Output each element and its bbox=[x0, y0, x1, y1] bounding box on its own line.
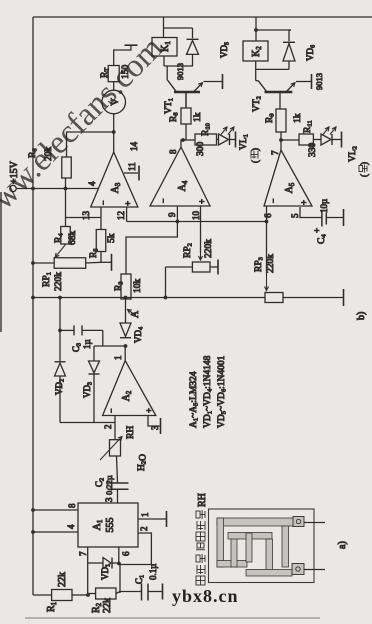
led VL2 bbox=[313, 139, 321, 141]
svg-text:300: 300 bbox=[196, 142, 206, 157]
ground VL1 bbox=[235, 132, 237, 148]
wire VT2 emitter to ground bbox=[296, 81, 311, 83]
wire K1 connections bbox=[163, 56, 165, 66]
wire R9 to VT2 base bbox=[279, 92, 281, 109]
svg-text:RH: RH bbox=[197, 493, 208, 507]
node bus pin9 bbox=[176, 220, 180, 224]
svg-text:5k: 5k bbox=[107, 233, 117, 243]
svg-text:6: 6 bbox=[121, 551, 131, 556]
svg-text:13: 13 bbox=[81, 211, 91, 221]
resistor R5 bbox=[96, 230, 106, 252]
sensor label bbox=[196, 576, 205, 585]
wire RP1 to ground node bbox=[86, 261, 101, 264]
potentiometer RP3 bbox=[265, 293, 283, 303]
svg-text:10: 10 bbox=[191, 211, 201, 221]
wire +15V feed to A3 pin4 bbox=[33, 188, 98, 190]
wire R5 to pin13 line, stub to A3 bbox=[100, 218, 102, 230]
wire 555 pin3 to C2 bbox=[117, 489, 119, 503]
wire pin2 stub bbox=[114, 416, 116, 423]
ground branch bottom bbox=[343, 289, 345, 306]
wire 555 pin8 to rail bbox=[33, 509, 78, 511]
svg-text:−: − bbox=[159, 198, 168, 203]
wire collector node column bbox=[164, 65, 193, 67]
wire 555 pin6 line bbox=[118, 547, 120, 564]
wire A4 output node bbox=[181, 140, 186, 147]
diode VD2 on feedback row bbox=[59, 376, 61, 423]
wire 555 pin2 route bbox=[119, 533, 151, 565]
ground R7 bbox=[125, 44, 138, 46]
svg-text:6: 6 bbox=[263, 213, 273, 218]
svg-text:10µ: 10µ bbox=[319, 199, 329, 213]
humidity sensor RH drawing bbox=[209, 509, 315, 583]
potentiometer RP2 bbox=[192, 262, 210, 272]
ground VT1 emitter bbox=[222, 74, 224, 89]
svg-text:10k: 10k bbox=[133, 279, 143, 294]
svg-text:(: ( bbox=[250, 160, 260, 163]
capacitor C3 bbox=[60, 329, 74, 331]
svg-text:22k: 22k bbox=[57, 572, 68, 587]
wire R2 to C1 bbox=[116, 592, 120, 594]
wire pin13 vertical bbox=[66, 217, 102, 219]
wire A5 pin5 to C4 bbox=[300, 207, 322, 218]
svg-text:330: 330 bbox=[308, 143, 318, 158]
svg-text:0.22µ: 0.22µ bbox=[104, 475, 114, 495]
svg-text:68k: 68k bbox=[68, 231, 78, 246]
svg-text:+: + bbox=[299, 200, 309, 205]
svg-text:7: 7 bbox=[270, 150, 280, 155]
wire A2 output to junction bbox=[124, 346, 126, 361]
ground C1 bbox=[162, 584, 164, 600]
wire A2 pin2 node line bbox=[60, 422, 115, 424]
wire 555 pin7 line bbox=[87, 547, 89, 595]
scan artifact bottom streak bbox=[25, 617, 320, 619]
wire VD6 anode link bbox=[256, 68, 289, 70]
svg-text:12: 12 bbox=[116, 211, 126, 220]
svg-text:RH: RH bbox=[126, 426, 136, 439]
wire input bus vertical bbox=[127, 221, 267, 223]
capacitor C2 bbox=[108, 488, 129, 490]
svg-text:−: − bbox=[107, 408, 116, 413]
resistor RH humidity sensor bbox=[110, 440, 121, 456]
svg-text:7: 7 bbox=[78, 551, 88, 556]
sensor terminal pads bbox=[293, 517, 304, 527]
node A2 output junction bbox=[124, 344, 128, 348]
svg-text:220k: 220k bbox=[266, 254, 276, 273]
led VL1 bbox=[217, 139, 219, 141]
op-amp A2 bbox=[103, 361, 156, 416]
svg-text:1µ: 1µ bbox=[82, 339, 92, 349]
wire R8 to VT1 base bbox=[185, 92, 187, 108]
scan artifact left edge bbox=[0, 192, 2, 332]
wire R7 to ground bbox=[114, 46, 131, 66]
wire A3 pin11 to ground bbox=[124, 172, 138, 174]
wire 555 pin1 to ground bbox=[138, 518, 167, 520]
wire VT2 collector bbox=[256, 80, 259, 82]
resistor R4 bbox=[61, 227, 71, 245]
wire VT1 collector bbox=[166, 79, 169, 81]
resistor R7 150 bbox=[108, 66, 119, 82]
capacitor C4 bbox=[321, 211, 323, 227]
svg-text:220k: 220k bbox=[204, 239, 214, 258]
svg-text:5: 5 bbox=[290, 213, 300, 218]
diode VD6 bbox=[283, 44, 295, 62]
svg-text:9: 9 bbox=[167, 212, 177, 217]
wire VT1 emitter to ground bbox=[204, 81, 223, 83]
svg-text:2: 2 bbox=[139, 527, 149, 532]
node VD1-pin6-pin2 bbox=[117, 562, 121, 566]
svg-text:9013: 9013 bbox=[314, 73, 324, 90]
svg-text:+: + bbox=[312, 228, 322, 233]
ground VT2 emitter bbox=[311, 74, 313, 89]
wire VD3 column bbox=[94, 345, 126, 347]
ground A2 pin3 bbox=[160, 418, 162, 434]
svg-text:14: 14 bbox=[129, 142, 139, 152]
diode VD1 bbox=[88, 562, 103, 564]
wire R1 to junction bbox=[72, 594, 88, 596]
svg-text:11: 11 bbox=[127, 162, 137, 171]
wire to R9 bbox=[280, 132, 282, 140]
svg-text:+: + bbox=[197, 199, 207, 204]
resistor R2 bbox=[88, 593, 96, 595]
svg-text:+: + bbox=[144, 408, 154, 413]
svg-text:4: 4 bbox=[66, 524, 76, 529]
node R1-R2-pin7 bbox=[86, 593, 90, 597]
ground 555 pin1 bbox=[166, 511, 168, 527]
svg-text:0.1µ: 0.1µ bbox=[148, 564, 158, 580]
wire RH to A2 pin2 node bbox=[114, 423, 116, 440]
wire R3 to bus detour bbox=[126, 222, 177, 275]
resistor R3 bbox=[121, 274, 131, 299]
wire A5 output node bbox=[280, 140, 282, 150]
wire A3 pin12 stub bbox=[126, 207, 128, 222]
diode VD5 bbox=[192, 54, 194, 66]
svg-text:8: 8 bbox=[67, 503, 77, 508]
svg-text:1: 1 bbox=[140, 513, 150, 518]
svg-text:ybx8.cn: ybx8.cn bbox=[172, 586, 239, 606]
wire A3 output bbox=[113, 114, 115, 152]
svg-text:a): a) bbox=[337, 541, 348, 549]
resistor R8 bbox=[181, 108, 191, 124]
node rail-terminal junction bbox=[31, 187, 35, 191]
wire +15V branch vertical bbox=[33, 297, 265, 299]
wire R4 R6 line bbox=[65, 178, 67, 227]
wire R5 left to ground bbox=[100, 252, 102, 263]
op-amp A4 bbox=[150, 147, 210, 206]
relay K1 bbox=[152, 38, 177, 57]
diode VD3 bbox=[89, 361, 100, 373]
wire right-edge supply line bbox=[33, 16, 372, 18]
wire rail left end into R1 bbox=[33, 594, 52, 596]
ground R5/RP1 bbox=[111, 254, 113, 271]
svg-text:1: 1 bbox=[113, 356, 123, 361]
svg-text:A: A bbox=[130, 310, 141, 318]
resistor R9 bbox=[276, 109, 286, 132]
op-amp A3 bbox=[91, 152, 138, 207]
resistor R1 bbox=[52, 590, 72, 601]
wire rail to RP1 bbox=[33, 262, 54, 264]
wire branch below RP3 to ground bbox=[283, 297, 344, 299]
meter V bbox=[102, 90, 126, 114]
potentiometer RP1 bbox=[54, 258, 85, 269]
wire A2 pin3 to ground bbox=[148, 416, 161, 427]
svg-text:4: 4 bbox=[87, 181, 97, 186]
relay K2 bbox=[243, 41, 268, 61]
svg-text:555: 555 bbox=[105, 518, 116, 533]
wire R2 node to 555 node bbox=[119, 564, 121, 593]
svg-text:2: 2 bbox=[103, 425, 113, 430]
transistor VT2 bbox=[265, 91, 293, 93]
transistor VT1 bbox=[174, 91, 200, 93]
diode VD4 bbox=[120, 323, 131, 337]
node bus pin6 bbox=[265, 220, 269, 224]
svg-text:220k: 220k bbox=[54, 272, 64, 291]
IC A1 555 timer bbox=[78, 503, 138, 547]
svg-text:22k: 22k bbox=[102, 598, 113, 613]
svg-text:−: − bbox=[269, 198, 278, 203]
wire +15V top rail bbox=[32, 17, 34, 595]
ground VL2 bbox=[341, 132, 343, 148]
wire R6 to output node bbox=[67, 132, 115, 157]
svg-text:): ) bbox=[250, 148, 260, 151]
wire to R8 bbox=[185, 124, 187, 140]
capacitor C1 bbox=[141, 584, 143, 601]
wire meter to R7 bbox=[113, 82, 115, 91]
op-amp A5 bbox=[264, 150, 312, 206]
svg-text:−: − bbox=[99, 200, 108, 205]
svg-text:3: 3 bbox=[104, 497, 114, 502]
wiper RP1 arrow bbox=[55, 245, 65, 258]
sensor lead wires bbox=[304, 522, 325, 524]
wire 555 pin4 to rail bbox=[33, 531, 78, 533]
wire K2 connections bbox=[255, 30, 257, 41]
resistor R11 bbox=[281, 139, 299, 141]
svg-text:1k: 1k bbox=[193, 112, 203, 122]
svg-text:b): b) bbox=[356, 312, 367, 320]
svg-text:+: + bbox=[123, 201, 133, 206]
resistor R6 bbox=[62, 157, 72, 178]
svg-text:1k: 1k bbox=[293, 113, 303, 123]
wire VD3 row bbox=[93, 375, 95, 423]
wire A4 pin9 stub bbox=[176, 206, 178, 222]
svg-text:8: 8 bbox=[168, 149, 178, 154]
resistor R10 bbox=[183, 139, 195, 141]
+15V supply terminal bbox=[10, 185, 16, 191]
ground C4 bbox=[343, 209, 345, 226]
svg-text:(: ( bbox=[359, 174, 369, 177]
